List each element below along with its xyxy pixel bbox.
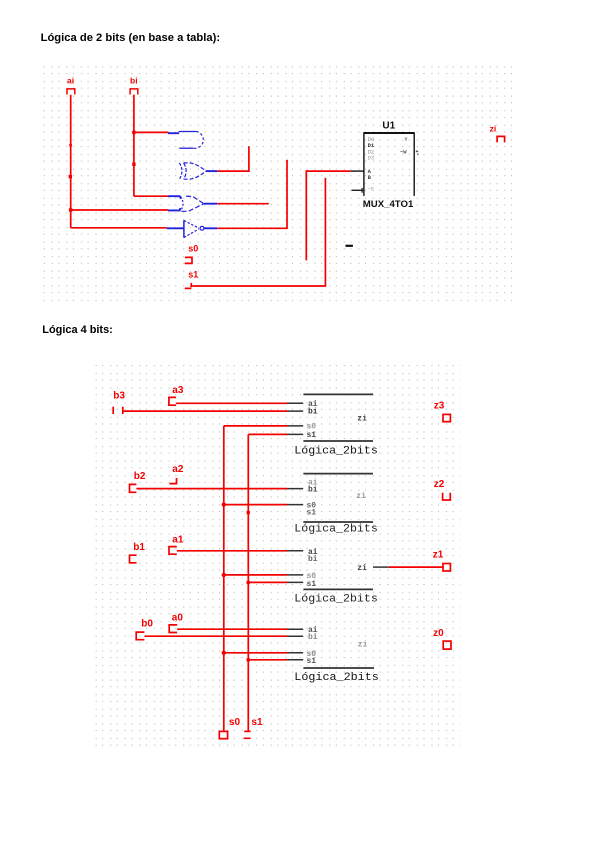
block B2 bottom edge xyxy=(303,521,373,523)
port s0 bottom xyxy=(219,717,240,739)
wire bi to gate1 input xyxy=(134,131,168,133)
port a3 xyxy=(169,385,184,405)
block B3 bottom edge xyxy=(303,588,373,590)
B3 pin stub ai xyxy=(287,550,303,552)
wire b2 to B2 bi xyxy=(136,488,287,490)
and-gate G1 xyxy=(168,132,203,149)
svg-text:Lógica de 2 bits (en base a ta: Lógica de 2 bits (en base a tabla): xyxy=(41,32,221,44)
svg-text:s1: s1 xyxy=(251,717,263,728)
svg-text:~W: ~W xyxy=(400,148,407,155)
svg-text:z1: z1 xyxy=(433,550,444,561)
wire bus1 to B4 s0 xyxy=(224,652,287,654)
svg-text:s1: s1 xyxy=(307,509,317,518)
svg-text:Lógica 4 bits:: Lógica 4 bits: xyxy=(42,324,113,336)
wire bus2 to B4 s1 xyxy=(248,659,287,661)
junction bi to gate1 xyxy=(132,131,135,134)
svg-text:ai: ai xyxy=(67,76,74,86)
junction bus2 B2 xyxy=(247,511,250,514)
wire G4 output xyxy=(217,160,287,229)
wire G3 output xyxy=(217,203,268,205)
junction bus2 B3 xyxy=(247,581,250,584)
wire to mux A pin xyxy=(306,171,350,260)
wire a1 to B3 ai xyxy=(177,550,287,552)
port z2 xyxy=(434,479,451,500)
wire a0 to B4 ai xyxy=(177,628,287,630)
B4 pin stub s0 xyxy=(287,652,303,654)
svg-text:zi: zi xyxy=(490,124,497,134)
node on ai wire xyxy=(69,144,72,147)
B4 pin stub s1 xyxy=(287,659,303,661)
svg-text:a3: a3 xyxy=(172,385,184,396)
wire a3 to B1 ai xyxy=(176,402,287,404)
svg-text:z2: z2 xyxy=(434,479,445,490)
svg-text:MUX_4TO1: MUX_4TO1 xyxy=(363,199,414,210)
svg-text:U1: U1 xyxy=(382,121,395,132)
port s1 top xyxy=(185,270,199,289)
svg-text:bi: bi xyxy=(130,76,138,86)
port a2 xyxy=(169,464,183,484)
wire b3 to B1 bi xyxy=(124,410,287,412)
svg-text:Lógica_2bits: Lógica_2bits xyxy=(294,672,379,684)
output stub marks xyxy=(416,151,418,153)
port z3 xyxy=(434,401,451,422)
B3 pin stub s1 xyxy=(287,581,303,583)
svg-text:s1: s1 xyxy=(307,431,317,440)
port b0 xyxy=(136,619,153,640)
B4 pin stub ai xyxy=(287,628,303,630)
svg-text:D3: D3 xyxy=(368,155,375,162)
svg-text:~E: ~E xyxy=(368,186,375,193)
port a0 xyxy=(169,613,183,633)
port z1 xyxy=(433,550,451,571)
port bi xyxy=(130,76,138,95)
svg-text:b0: b0 xyxy=(141,619,153,630)
svg-text:zi: zi xyxy=(357,564,367,573)
wire ai to inverter input xyxy=(71,227,167,229)
block B1 top edge xyxy=(303,393,373,395)
port ai xyxy=(67,76,75,95)
wire G2 output xyxy=(217,146,249,171)
wire bus2 to B1 s1 xyxy=(248,433,287,435)
junction bus1 B3 xyxy=(222,573,226,577)
port s0 top xyxy=(185,244,199,264)
or-gate G3 xyxy=(168,196,217,211)
svg-text:zi: zi xyxy=(357,414,367,423)
svg-text:b1: b1 xyxy=(133,542,145,553)
svg-text:z3: z3 xyxy=(434,401,445,412)
B1 pin stub ai xyxy=(287,402,303,404)
port b3 xyxy=(113,390,125,414)
port zi xyxy=(490,124,505,143)
ground dash xyxy=(346,245,353,247)
wire s1 to mux B riser xyxy=(192,178,325,286)
junction bus2 B4 xyxy=(247,658,250,661)
junction bus1 B4 xyxy=(222,651,226,655)
inverter G4 xyxy=(167,220,218,237)
B3 pin stub s0 xyxy=(287,574,303,576)
svg-text:bi: bi xyxy=(308,555,318,564)
junction ai to gate3 xyxy=(69,208,72,211)
B2 pin stub bi xyxy=(287,488,303,490)
wire bi to gate3 top input xyxy=(134,195,168,197)
svg-text:s1: s1 xyxy=(307,657,317,666)
port z0 xyxy=(433,628,451,649)
svg-text:Lógica_2bits: Lógica_2bits xyxy=(294,523,378,535)
wire bus1 to B2 s0 xyxy=(224,504,287,506)
pin stub A xyxy=(351,170,364,172)
tick on ~E stub xyxy=(361,188,363,193)
svg-text:s0: s0 xyxy=(229,717,241,728)
svg-text:bi: bi xyxy=(308,633,318,642)
port a1 xyxy=(169,534,184,554)
port s1 bottom xyxy=(244,717,263,739)
block B2 top edge xyxy=(303,473,373,475)
node on ai wire 2 xyxy=(69,175,72,178)
svg-text:a0: a0 xyxy=(172,613,184,624)
B1 pin stub s0 xyxy=(287,425,303,427)
B1 pin stub bi xyxy=(287,410,303,412)
svg-text:bi: bi xyxy=(308,486,318,495)
mux U1 box xyxy=(364,132,414,196)
svg-text:zi: zi xyxy=(358,641,368,650)
svg-text:a2: a2 xyxy=(172,464,184,475)
svg-text:b3: b3 xyxy=(113,390,125,401)
svg-text:zi: zi xyxy=(356,492,366,501)
B1 pin stub s1 xyxy=(287,433,303,435)
B4 pin stub bi xyxy=(287,635,303,637)
B2 pin stub s0 xyxy=(287,504,303,506)
s1 bus vertical xyxy=(247,434,249,731)
s0 bus vertical xyxy=(223,426,225,731)
wire bus1 to B3 s0 xyxy=(224,574,287,576)
port b2 xyxy=(130,471,146,492)
pin stub B3 zi xyxy=(373,566,389,568)
wire bi vertical xyxy=(133,95,135,197)
wire bus2 to B3 s1 xyxy=(248,581,287,583)
block B4 bottom edge xyxy=(303,667,374,669)
node on bi wire xyxy=(132,163,135,166)
svg-text:s0: s0 xyxy=(188,244,198,254)
xor-gate G2 xyxy=(179,163,217,179)
wire ai vertical xyxy=(70,95,72,228)
svg-text:s1: s1 xyxy=(307,580,317,589)
svg-text:z0: z0 xyxy=(433,628,444,639)
junction bus1 B2 xyxy=(222,502,226,506)
pin stub ~E xyxy=(352,189,364,191)
wire ai to gate3 bottom input xyxy=(71,209,169,211)
wire b0 to B4 bi xyxy=(144,635,287,637)
wire bus1 to B1 s0 xyxy=(224,425,287,427)
svg-text:bi: bi xyxy=(308,408,318,417)
svg-text:Lógica_2bits: Lógica_2bits xyxy=(294,445,378,457)
svg-text:a1: a1 xyxy=(172,534,184,545)
svg-text:b2: b2 xyxy=(134,471,146,482)
port b1 xyxy=(130,542,146,563)
svg-text:Lógica_2bits: Lógica_2bits xyxy=(294,593,378,605)
svg-text:s1: s1 xyxy=(188,270,198,280)
wire B3 zi to z1 xyxy=(389,566,443,568)
block B1 bottom edge xyxy=(303,440,373,442)
